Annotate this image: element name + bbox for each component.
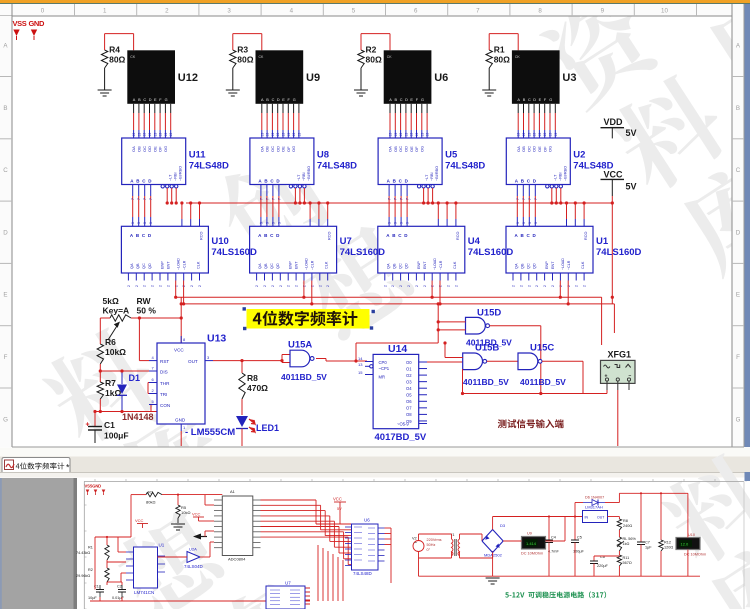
svg-text:~BI/RBO: ~BI/RBO [179, 166, 183, 181]
svg-text:VSSGND: VSSGND [85, 483, 102, 488]
wire clk/load from bus [190, 203, 192, 219]
svg-text:2: 2 [399, 285, 403, 287]
svg-text:QA: QA [130, 263, 134, 269]
wire LT/RBI to VCC bus [423, 188, 425, 203]
wire LT/RBI to VCC bus [294, 188, 296, 203]
svg-text:U7: U7 [285, 581, 291, 586]
wire pot right to U13 [131, 317, 181, 319]
pin bubble [422, 185, 425, 188]
wire R2 to display [360, 34, 362, 50]
wire LT/RBI to VCC bus [299, 188, 301, 203]
svg-text:- LM555CM: - LM555CM [185, 427, 235, 438]
adc U3 [222, 496, 253, 556]
wire clk/load from bus [574, 203, 576, 219]
top rail [493, 516, 565, 518]
wire U15A out [316, 358, 326, 360]
svg-text:13: 13 [164, 133, 168, 137]
svg-text:7: 7 [259, 198, 263, 200]
svg-text:4011BD_5V: 4011BD_5V [520, 377, 566, 387]
svg-text:R2: R2 [366, 45, 377, 55]
svg-text:U6: U6 [434, 72, 448, 84]
counter bottom pin [431, 273, 433, 281]
wire clk/load from bus [181, 203, 183, 219]
svg-text:U4: U4 [468, 236, 481, 247]
svg-text:~CP1: ~CP1 [379, 366, 390, 371]
op-timer U13 LM555CM [157, 343, 205, 424]
pin marker lower [94, 490, 98, 494]
svg-text:QC: QC [398, 263, 402, 269]
wire U8 outputs [385, 527, 392, 529]
wire left drop [130, 495, 132, 537]
svg-text:13: 13 [132, 133, 136, 137]
wire display pin [554, 104, 556, 113]
counter bottom pin [528, 273, 530, 281]
wire display pin [400, 104, 402, 113]
svg-text:7: 7 [271, 198, 275, 200]
svg-text:U5: U5 [445, 150, 458, 161]
svg-text:~LOAD: ~LOAD [433, 258, 437, 270]
svg-text:2: 2 [391, 285, 395, 287]
pin stub [149, 370, 157, 372]
wire counter to bus2 [439, 281, 441, 304]
wire adc fan [261, 536, 349, 538]
svg-text:13: 13 [169, 133, 173, 137]
svg-text:U9: U9 [306, 72, 320, 84]
wire BCD digit line [528, 185, 530, 197]
pin bubble [170, 185, 173, 188]
wire display pin [277, 104, 279, 113]
pin OUT3 [205, 360, 213, 362]
counter bottom pin [256, 273, 258, 281]
svg-text:QD: QD [404, 263, 408, 269]
svg-text:7: 7 [265, 198, 269, 200]
counter bottom pin [536, 273, 538, 281]
svg-text:7: 7 [394, 198, 398, 200]
svg-text:2: 2 [143, 285, 147, 287]
gate U15C 4011BD [518, 353, 538, 370]
active tab [2, 458, 70, 473]
lower title [505, 591, 606, 598]
wire XFG1 common down [617, 390, 619, 446]
svg-text:QC: QC [527, 263, 531, 269]
svg-text:4.7mF: 4.7mF [548, 550, 559, 554]
svg-text:74LS48D: 74LS48D [189, 161, 229, 172]
svg-text:~CLR: ~CLR [567, 260, 571, 270]
wire display pin [149, 104, 151, 113]
svg-text:10: 10 [661, 8, 668, 15]
svg-text:13: 13 [358, 362, 363, 367]
counter U4 74LS160D [378, 226, 465, 273]
svg-text:A1: A1 [230, 489, 236, 494]
svg-text:80Ω: 80Ω [109, 55, 125, 65]
svg-text:MR: MR [379, 375, 386, 380]
svg-text:U7: U7 [340, 236, 352, 247]
svg-text:QC: QC [270, 263, 274, 269]
svg-text:O5: O5 [406, 393, 412, 398]
svg-text:10kΩ: 10kΩ [105, 347, 126, 357]
svg-text:13: 13 [148, 133, 152, 137]
svg-text:~LT: ~LT [553, 174, 557, 181]
wire clk/load from bus [437, 203, 439, 219]
svg-text:13: 13 [554, 133, 558, 137]
svg-text:*: * [66, 463, 70, 473]
svg-text:OD: OD [275, 146, 280, 152]
wire pot left [100, 317, 110, 319]
svg-text:13: 13 [159, 133, 163, 137]
wire U15D out [490, 325, 541, 327]
svg-text:ENP: ENP [545, 261, 549, 269]
svg-text:2: 2 [165, 8, 169, 15]
svg-text:B: B [3, 105, 7, 112]
svg-text:O3: O3 [406, 379, 412, 384]
svg-text:2: 2 [310, 285, 314, 287]
svg-text:2: 2 [383, 285, 387, 287]
counter bottom pin [183, 273, 185, 281]
svg-text:2: 2 [151, 285, 155, 287]
wire display pin [517, 104, 519, 113]
svg-text:O2: O2 [406, 373, 412, 378]
lower-left wire mesh [95, 536, 131, 538]
svg-text:2: 2 [535, 285, 539, 287]
pin bubble [166, 185, 169, 188]
svg-text:OF: OF [542, 146, 547, 152]
svg-text:RCO: RCO [328, 232, 332, 240]
counter chip lower bottom [266, 586, 305, 609]
counter U7 74LS160D [250, 226, 337, 273]
svg-text:THR: THR [160, 381, 170, 386]
svg-text:E: E [539, 98, 542, 102]
svg-text:RST: RST [160, 359, 169, 364]
svg-text:OG: OG [163, 146, 168, 152]
arrow marker [193, 534, 201, 540]
wire clk/load from bus [327, 203, 329, 219]
svg-text:2: 2 [127, 285, 131, 287]
wire LT/RBI to VCC bus [166, 188, 168, 203]
svg-text:D: D [533, 98, 536, 102]
svg-text:VSS: VSS [13, 19, 27, 28]
lower gray panel [0, 478, 77, 609]
svg-text:C4: C4 [551, 536, 556, 540]
svg-text:O6: O6 [406, 399, 412, 404]
svg-text:3: 3 [388, 222, 392, 224]
svg-text:29.96kΩ: 29.96kΩ [76, 574, 90, 578]
wire counter to bus1 [303, 281, 305, 298]
svg-text:2: 2 [512, 285, 516, 287]
svg-text:1kΩ: 1kΩ [623, 542, 630, 546]
svg-text:10μF: 10μF [88, 596, 97, 600]
svg-text:V2: V2 [412, 537, 417, 541]
svg-text:CLK: CLK [581, 261, 585, 269]
pin marker lower [86, 490, 90, 494]
svg-text:80kΩ: 80kΩ [146, 500, 155, 505]
wire LT/RBI to VCC bus [432, 188, 434, 203]
wire resistor to ground [488, 68, 490, 90]
svg-text:13: 13 [282, 133, 286, 137]
sheet bottom edge [12, 446, 744, 448]
svg-text:2: 2 [551, 285, 555, 287]
wire display pin [421, 104, 423, 113]
instrument terminal stub [617, 381, 619, 390]
svg-text:4011BD_5V: 4011BD_5V [281, 372, 327, 382]
svg-text:LED1: LED1 [256, 423, 279, 433]
tab label [16, 462, 65, 469]
counter bottom pin [455, 273, 457, 281]
wire counter to bus2 [567, 281, 569, 304]
svg-text:~BI/RBO: ~BI/RBO [435, 166, 439, 181]
svg-text:3: 3 [137, 222, 141, 224]
wire BCD digit line [516, 185, 518, 197]
svg-text:4011BD_5V: 4011BD_5V [463, 377, 509, 387]
counter bottom pin [159, 273, 161, 281]
svg-text:U15D: U15D [477, 308, 501, 319]
svg-text:~: ~ [414, 541, 417, 547]
svg-text:ADC0804: ADC0804 [228, 557, 246, 562]
svg-text:13: 13 [266, 133, 270, 137]
ground [482, 89, 496, 91]
wire display pin [416, 104, 418, 113]
wire XFG1 plus [606, 390, 608, 394]
counter U14 4017BD_5V [373, 354, 419, 428]
svg-text:13: 13 [137, 133, 141, 137]
title bar [0, 0, 750, 3]
svg-text:U15A: U15A [288, 340, 312, 351]
svg-text:D: D [277, 98, 280, 102]
selection handle [372, 310, 375, 313]
svg-text:~RBI: ~RBI [302, 172, 306, 181]
svg-text:G: G [549, 98, 552, 102]
svg-text:80Ω: 80Ω [494, 55, 510, 65]
svg-text:OD: OD [147, 146, 152, 152]
counter bottom pin [264, 273, 266, 281]
svg-text:OE: OE [409, 146, 414, 152]
wire clk/load from bus [583, 203, 585, 219]
left ruler [0, 16, 12, 447]
svg-text:~RBI: ~RBI [430, 172, 434, 181]
svg-text:XFG1: XFG1 [608, 350, 632, 360]
svg-text:F: F [736, 354, 740, 361]
wire LT/RBI to VCC bus [560, 188, 562, 203]
svg-text:220μF: 220μF [597, 564, 609, 568]
svg-text:74LS160D: 74LS160D [211, 247, 257, 258]
wire resistor to ground [360, 68, 362, 90]
svg-text:OC: OC [270, 146, 275, 152]
wire display pin [549, 104, 551, 113]
svg-text:3: 3 [528, 222, 532, 224]
wire display pin [138, 104, 140, 113]
svg-text:VCC: VCC [192, 512, 201, 517]
wire source-transformer [418, 534, 420, 541]
pin VCC8 [180, 336, 182, 343]
svg-text:U9: U9 [527, 532, 532, 536]
svg-text:0: 0 [41, 8, 45, 15]
svg-text:QB: QB [264, 263, 268, 269]
svg-text:2: 2 [423, 285, 427, 287]
svg-text:OB: OB [393, 146, 398, 152]
svg-text:7: 7 [277, 198, 281, 200]
wire LT/RBI to VCC bus [171, 188, 173, 203]
selection handle [243, 307, 246, 310]
svg-text:U3: U3 [562, 72, 576, 84]
svg-text:R11: R11 [623, 556, 630, 560]
wire BCD digit line [406, 185, 408, 197]
tab strip [0, 448, 750, 457]
source V2 [413, 541, 424, 552]
svg-text:R8: R8 [623, 519, 628, 523]
wire counter to bus1 [559, 281, 561, 298]
wire display pin [266, 104, 268, 113]
svg-text:2: 2 [431, 285, 435, 287]
svg-text:QA: QA [258, 263, 262, 269]
svg-text:Key=A: Key=A [103, 306, 130, 316]
svg-text:2: 2 [159, 285, 163, 287]
svg-text:OA: OA [259, 146, 264, 152]
svg-text:CK: CK [130, 55, 136, 59]
svg-text:3: 3 [522, 222, 526, 224]
VCC distribution bus [186, 202, 612, 204]
svg-text:D: D [405, 98, 408, 102]
svg-text:~LT: ~LT [169, 174, 173, 181]
svg-text:G: G [736, 416, 741, 423]
title highlight [247, 309, 370, 329]
svg-text:CLK: CLK [196, 261, 200, 269]
svg-text:13: 13 [292, 133, 296, 137]
svg-text:13: 13 [297, 133, 301, 137]
counter bottom pin [327, 273, 329, 281]
svg-text:2: 2 [439, 285, 443, 287]
svg-text:13: 13 [394, 133, 398, 137]
svg-text:13: 13 [410, 133, 414, 137]
wire display pin [298, 104, 300, 113]
svg-text:D1: D1 [129, 373, 141, 383]
wire U15B out [487, 360, 518, 362]
svg-text:U8: U8 [317, 150, 329, 161]
svg-text:8: 8 [538, 8, 542, 15]
svg-text:13: 13 [271, 133, 275, 137]
svg-text:2: 2 [279, 285, 283, 287]
svg-text:13: 13 [153, 133, 157, 137]
svg-text:OA: OA [388, 146, 393, 152]
pin marker [31, 30, 37, 37]
svg-text:D: D [736, 229, 741, 236]
counter output pin [419, 387, 427, 389]
svg-text:ENT: ENT [166, 261, 170, 269]
wire display pin [528, 104, 530, 113]
svg-text:E: E [410, 98, 413, 102]
svg-text:74LS160D: 74LS160D [596, 247, 642, 258]
svg-text:2: 2 [174, 285, 178, 287]
wire BCD digit line [522, 185, 524, 197]
svg-text:2: 2 [415, 285, 419, 287]
svg-text:ENT: ENT [423, 261, 427, 269]
lower sheet ruler [84, 481, 744, 483]
svg-text:RW: RW [137, 296, 152, 306]
wire clk/load from bus [446, 203, 448, 219]
wire VCC vertical [611, 196, 613, 203]
svg-text:OC: OC [398, 146, 403, 152]
pin marker [13, 30, 19, 37]
svg-text:OB: OB [265, 146, 270, 152]
LED LED1 [236, 416, 248, 427]
svg-text:~BI/RBO: ~BI/RBO [307, 166, 311, 181]
wire LT/RBI to VCC bus [551, 188, 553, 203]
svg-text:OG: OG [419, 146, 424, 152]
svg-text:3: 3 [400, 222, 404, 224]
svg-text:OB: OB [137, 146, 142, 152]
svg-text:13: 13 [543, 133, 547, 137]
counter bottom pin [512, 273, 514, 281]
counter bottom pin [279, 273, 281, 281]
svg-text:RL 56%: RL 56% [623, 537, 637, 541]
svg-text:D: D [3, 229, 8, 236]
svg-text:7: 7 [137, 198, 141, 200]
svg-text:3: 3 [534, 222, 538, 224]
svg-text:CLK: CLK [325, 261, 329, 269]
svg-text:C2: C2 [117, 585, 122, 589]
svg-text:7: 7 [400, 198, 404, 200]
svg-text:74LS48D: 74LS48D [445, 161, 485, 172]
counter bottom pin [544, 273, 546, 281]
svg-text:3: 3 [271, 222, 275, 224]
counter bottom pin [447, 273, 449, 281]
svg-text:B: B [736, 105, 740, 112]
ground [354, 89, 368, 91]
bus2 [181, 303, 614, 305]
svg-text:DIS: DIS [160, 370, 168, 375]
svg-text:R7: R7 [105, 378, 116, 388]
svg-text:RCO: RCO [584, 232, 588, 240]
svg-text:~CLR: ~CLR [311, 260, 315, 270]
svg-text:~LOAD: ~LOAD [561, 258, 565, 270]
svg-text:0°: 0° [427, 548, 431, 552]
decoder U8 74LS48D [250, 138, 314, 185]
svg-text:QB: QB [521, 263, 525, 269]
svg-text:R4: R4 [109, 45, 120, 55]
wire BCD digit line [388, 185, 390, 197]
svg-text:2: 2 [326, 285, 330, 287]
wire BCD digit line [132, 185, 134, 197]
svg-text:~BI/RBO: ~BI/RBO [563, 166, 567, 181]
svg-text:U15B: U15B [475, 343, 499, 354]
svg-text:7: 7 [528, 198, 532, 200]
svg-text:G: G [293, 98, 296, 102]
counter bottom pin [319, 273, 321, 281]
svg-text:100μF: 100μF [104, 431, 129, 441]
svg-text:~CLR: ~CLR [182, 260, 186, 270]
svg-text:VCC: VCC [174, 348, 184, 353]
svg-text:QB: QB [136, 263, 140, 269]
svg-text:VCC: VCC [333, 497, 342, 502]
svg-text:3: 3 [227, 8, 231, 15]
wire top rail lower-left [131, 494, 146, 496]
svg-text:OD: OD [532, 146, 537, 152]
wire clk/load from bus [566, 203, 568, 219]
out rail upper [619, 492, 688, 494]
pin GND1 [180, 424, 182, 431]
counter bottom pin [135, 273, 137, 281]
counter bottom pin [552, 273, 554, 281]
svg-text:2: 2 [182, 285, 186, 287]
svg-text:13: 13 [260, 133, 264, 137]
svg-text:OA: OA [131, 146, 136, 152]
svg-text:B: B [266, 98, 269, 102]
svg-text:13: 13 [143, 133, 147, 137]
svg-text:TRI: TRI [160, 392, 167, 397]
counter bottom pin [415, 273, 417, 281]
ground [226, 89, 240, 91]
svg-text:U1: U1 [159, 543, 165, 548]
svg-text:240Ω: 240Ω [623, 524, 632, 528]
svg-text:2: 2 [543, 285, 547, 287]
